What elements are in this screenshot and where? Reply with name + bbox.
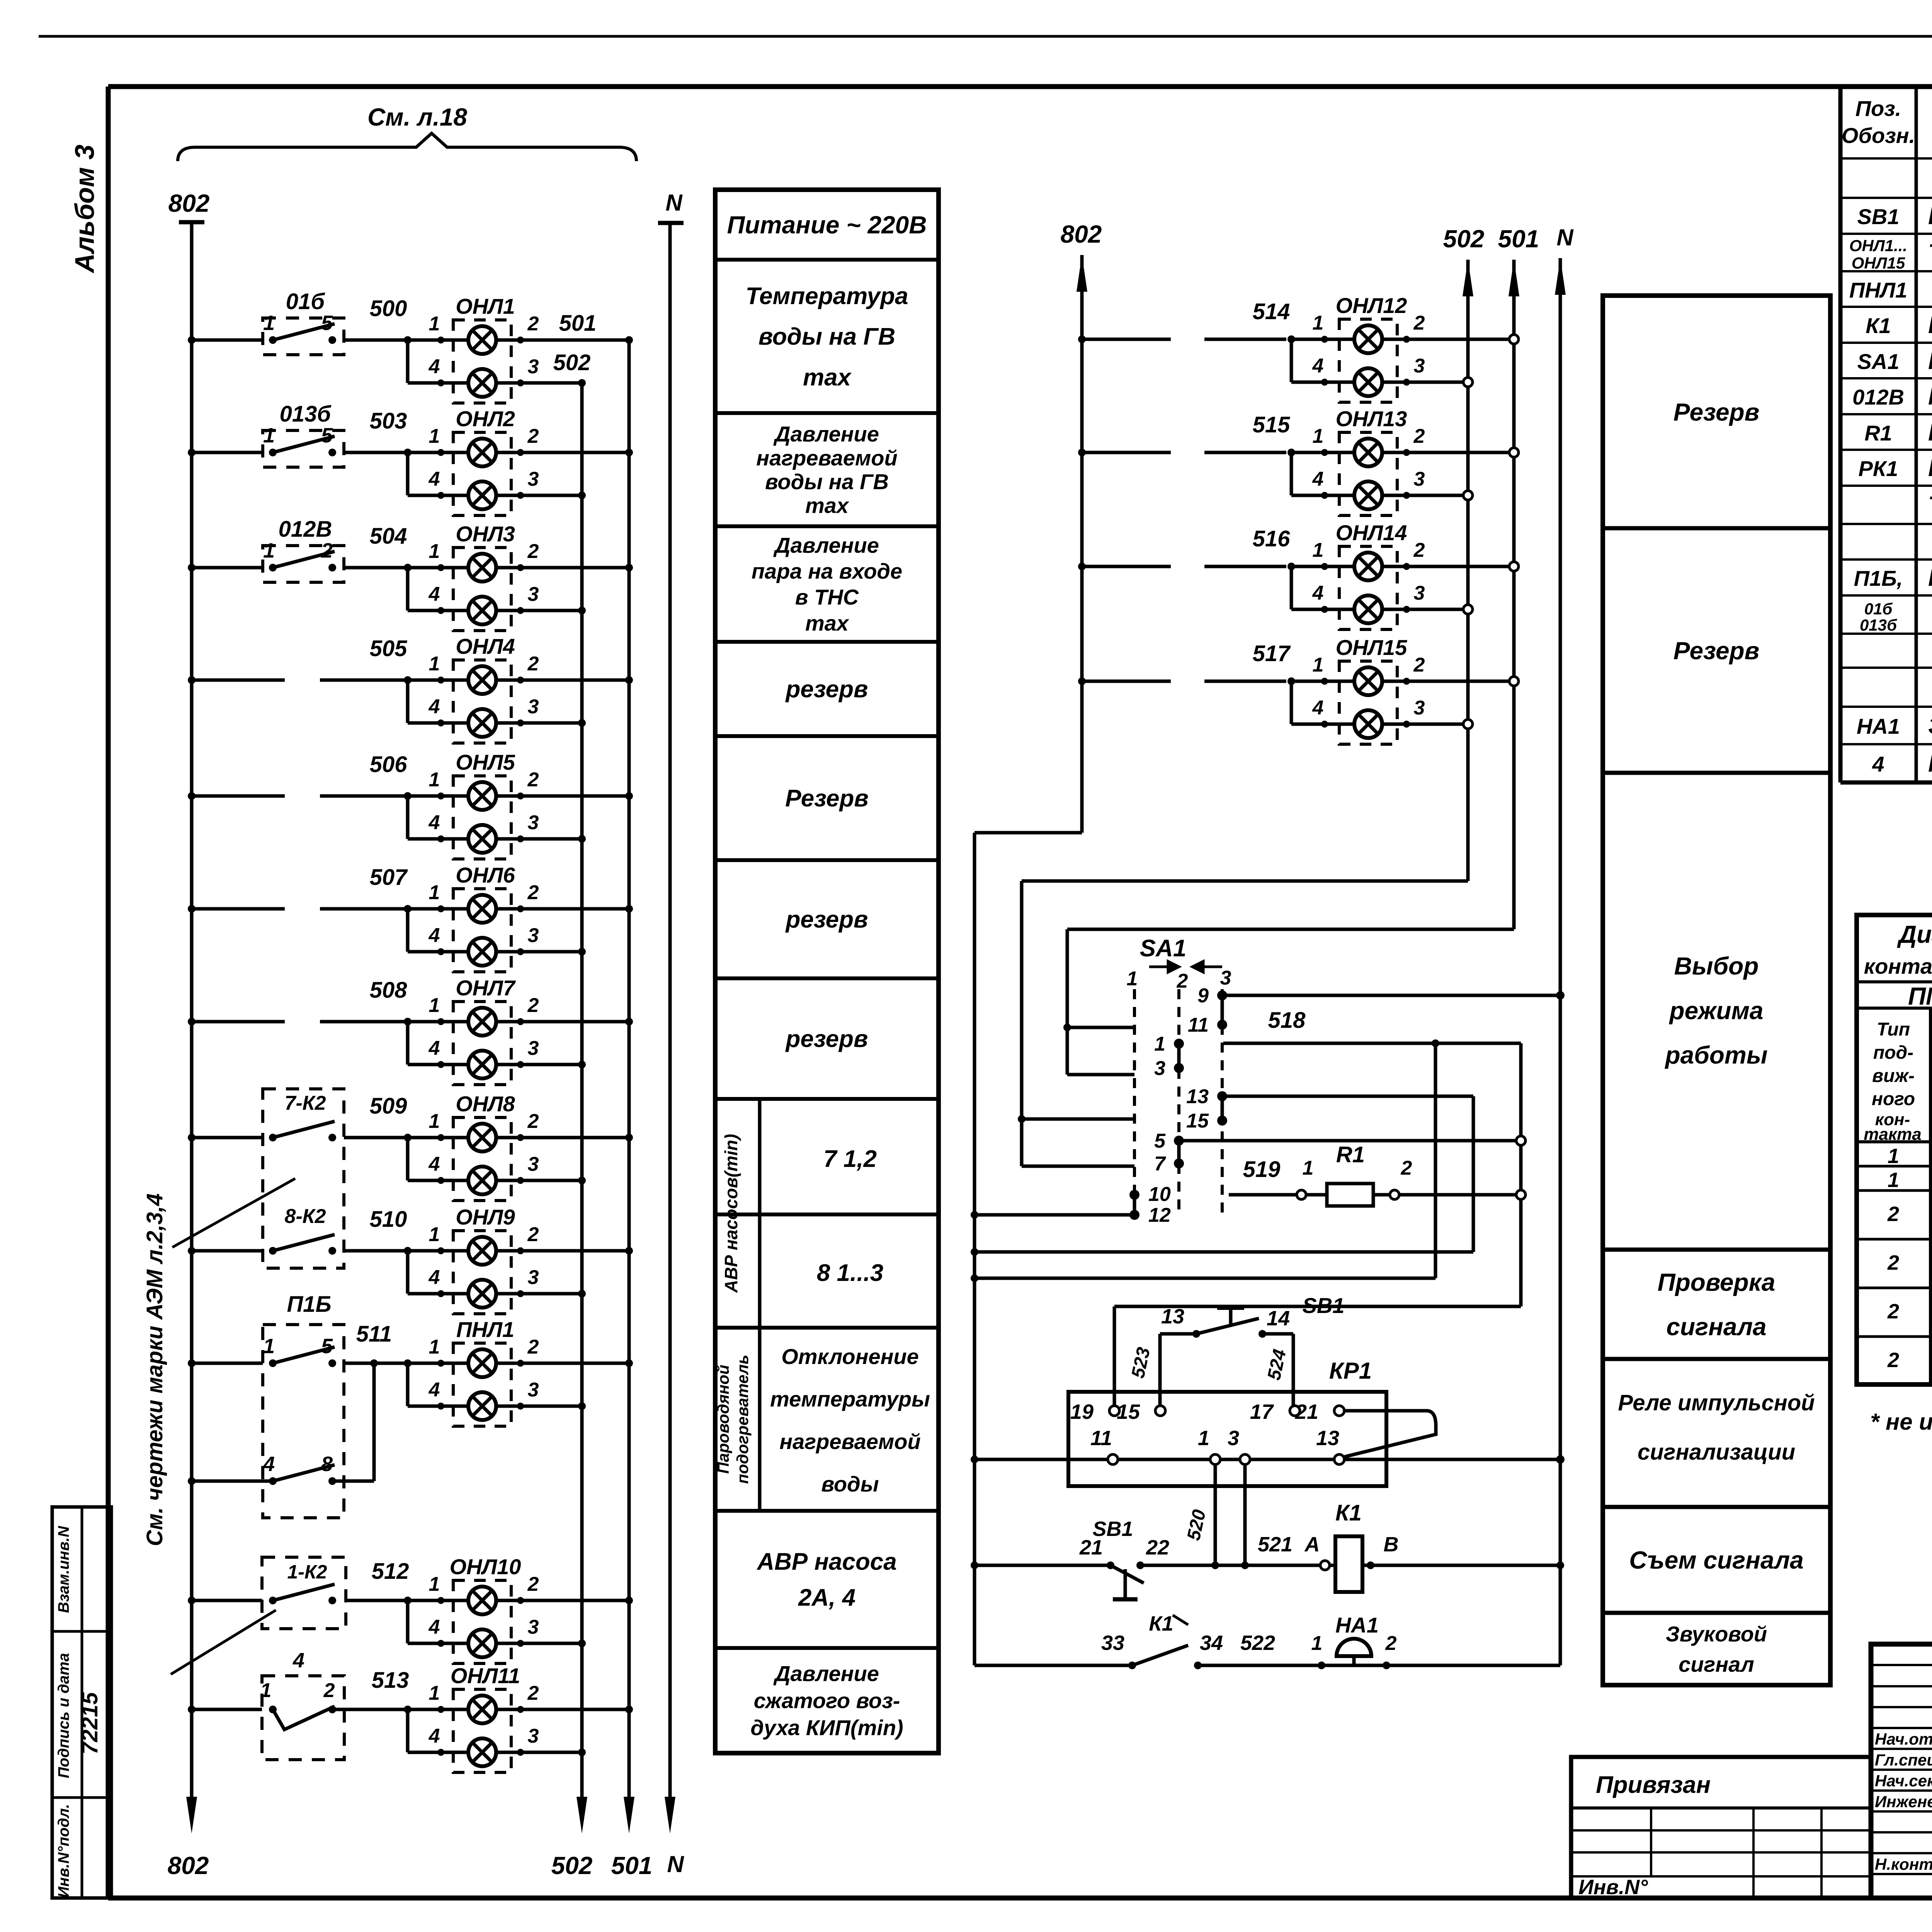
svg-text:Резистор ПЭ-25-2500 Ом +10%, 2: Резистор ПЭ-25-2500 Ом +10%, 25Вт: [1928, 419, 1932, 446]
svg-text:33: 33: [1101, 1631, 1124, 1655]
svg-text:сигнал: сигнал: [1679, 1652, 1754, 1676]
svg-text:3: 3: [528, 696, 539, 718]
svg-text:7-К2: 7-К2: [284, 1092, 326, 1114]
wire 501 riser to SA1: [1067, 928, 1514, 931]
svg-text:1: 1: [1127, 968, 1138, 990]
svg-text:4: 4: [1312, 697, 1324, 719]
svg-text:509: 509: [370, 1094, 407, 1119]
bell HA1: [1337, 1639, 1371, 1656]
SA1 dashed column 3: [1221, 989, 1224, 1215]
svg-text:Резерв: Резерв: [785, 785, 869, 812]
indicator lamp ОНЛ11: [453, 1689, 511, 1772]
svg-text:в ТНС: в ТНС: [795, 585, 859, 609]
svg-text:4: 4: [429, 583, 440, 605]
sub column АВР насосов(min): [758, 1099, 762, 1328]
svg-text:1: 1: [429, 1336, 440, 1358]
pointer line to 1-К2: [171, 1610, 276, 1674]
svg-text:2: 2: [1401, 1157, 1412, 1179]
svg-text:4: 4: [429, 1616, 440, 1638]
svg-text:АВР насоса: АВР насоса: [756, 1549, 896, 1575]
svg-text:1: 1: [1313, 654, 1324, 676]
svg-text:Пароводяной: Пароводяной: [714, 1365, 732, 1474]
svg-text:500: 500: [370, 296, 407, 321]
dashed box 012В: [263, 546, 344, 582]
svg-text:3: 3: [528, 468, 539, 490]
svg-text:5: 5: [321, 311, 333, 335]
dashed box 01б: [263, 318, 344, 355]
indicator lamp ОНЛ4: [453, 660, 511, 743]
svg-text:резерв: резерв: [785, 1026, 868, 1053]
svg-text:514: 514: [1253, 299, 1290, 324]
svg-text:3: 3: [528, 1379, 539, 1401]
svg-text:Реле тока двустабильное РТД12-: Реле тока двустабильное РТД12-02-34-40УХ…: [1928, 455, 1932, 481]
svg-text:01б: 01б: [286, 289, 326, 314]
svg-text:Прибор контроля ПКП. 1Э: Прибор контроля ПКП. 1Э: [1928, 565, 1932, 591]
svg-text:Звонок МЗ-1,220В,30ВЯ ТУ25-05-: Звонок МЗ-1,220В,30ВЯ ТУ25-05-1045-76: [1928, 713, 1932, 739]
wire 518: [1223, 1042, 1521, 1045]
box P1B: [263, 1325, 344, 1518]
wire KP1 pin19 riser: [1114, 1305, 1521, 1308]
svg-text:34: 34: [1200, 1631, 1223, 1655]
svg-text:1: 1: [1313, 539, 1324, 561]
svg-text:пара на входе: пара на входе: [752, 559, 902, 583]
svg-text:511: 511: [356, 1321, 392, 1347]
svg-text:2: 2: [527, 1223, 539, 1246]
svg-text:1: 1: [1888, 1145, 1899, 1168]
svg-text:духа КИП(min): духа КИП(min): [750, 1716, 903, 1740]
svg-text:505: 505: [370, 636, 408, 661]
svg-text:515: 515: [1253, 412, 1291, 437]
svg-text:SB1: SB1: [1092, 1517, 1133, 1541]
svg-text:013б: 013б: [1860, 616, 1897, 634]
svg-text:3: 3: [528, 355, 539, 378]
vertical junction wire right of SA1: [1519, 1043, 1523, 1306]
svg-text:ОНЛ8: ОНЛ8: [456, 1092, 515, 1116]
svg-text:В: В: [1384, 1533, 1399, 1556]
svg-text:Обозн.: Обозн.: [1842, 123, 1915, 148]
svg-text:15: 15: [1186, 1110, 1209, 1132]
frame top: [108, 84, 1932, 89]
svg-text:2: 2: [527, 1336, 539, 1358]
wire contact 8 up to 511: [332, 1480, 374, 1483]
svg-text:Инв.N°подл.: Инв.N°подл.: [55, 1804, 72, 1898]
svg-text:506: 506: [370, 752, 408, 777]
svg-text:Поз.: Поз.: [1855, 96, 1901, 121]
svg-text:2: 2: [323, 1679, 335, 1702]
svg-text:517: 517: [1253, 641, 1291, 666]
SA1 contacts 10-12: [1129, 1190, 1139, 1200]
svg-text:508: 508: [370, 978, 408, 1003]
svg-text:1: 1: [429, 881, 440, 904]
svg-text:ОНЛ1: ОНЛ1: [456, 294, 515, 318]
SA1 dashed column 2a: [1177, 989, 1180, 1043]
svg-text:2: 2: [527, 769, 539, 791]
svg-text:012В: 012В: [1852, 385, 1904, 409]
svg-text:3: 3: [528, 1153, 539, 1175]
svg-text:ОНЛ13: ОНЛ13: [1336, 406, 1407, 431]
svg-text:резерв: резерв: [785, 676, 868, 703]
wire SA1 12 feed: [971, 1211, 978, 1219]
svg-text:воды на ГВ: воды на ГВ: [765, 469, 889, 494]
node 502 left bus: [580, 383, 584, 1801]
svg-text:ОНЛ10: ОНЛ10: [450, 1554, 521, 1579]
svg-text:3: 3: [528, 924, 539, 947]
svg-text:510: 510: [370, 1207, 407, 1232]
svg-text:11: 11: [1188, 1014, 1209, 1036]
svg-text:Давление: Давление: [773, 1662, 879, 1686]
svg-text:Переключатель ПМОВ-112222/11-Д: Переключатель ПМОВ-112222/11-Д55: [1928, 348, 1932, 374]
svg-text:АВР насосов(min): АВР насосов(min): [721, 1134, 741, 1293]
svg-text:N: N: [665, 190, 683, 216]
svg-text:802: 802: [1061, 220, 1102, 248]
svg-text:Температура: Температура: [746, 283, 908, 310]
svg-text:ОНЛ15: ОНЛ15: [1336, 635, 1408, 660]
svg-text:13: 13: [1186, 1085, 1209, 1108]
svg-text:4: 4: [429, 1725, 440, 1747]
wire bus to П1Б contact 1-5: [192, 1362, 263, 1365]
wire 508: [188, 1018, 196, 1026]
svg-text:1: 1: [429, 1682, 440, 1704]
svg-text:4: 4: [1312, 468, 1324, 490]
pointer line to 7-К2 8-К2 box: [172, 1179, 295, 1247]
svg-text:4: 4: [429, 811, 440, 834]
svg-text:Кнопка КЕ11У3, исп.2 черный бе: Кнопка КЕ11У3, исп.2 черный без надписи: [1928, 203, 1932, 230]
svg-text:Реле импульсной: Реле импульсной: [1618, 1390, 1815, 1415]
svg-text:4: 4: [293, 1649, 304, 1672]
svg-text:4: 4: [429, 924, 440, 947]
svg-text:17: 17: [1250, 1400, 1274, 1423]
wire snyem signala rung: [971, 1561, 978, 1569]
svg-text:1: 1: [429, 1223, 440, 1246]
svg-text:2: 2: [1887, 1251, 1899, 1274]
svg-text:2: 2: [1887, 1202, 1899, 1226]
svg-text:Альбом 3: Альбом 3: [70, 145, 100, 274]
svg-text:2: 2: [527, 540, 539, 563]
svg-text:502: 502: [551, 1852, 593, 1879]
svg-text:2: 2: [1385, 1632, 1397, 1655]
svg-text:1: 1: [429, 994, 440, 1017]
KP1 bottom pin wire: [971, 1456, 978, 1463]
svg-text:виж-: виж-: [1872, 1066, 1915, 1086]
502 bus bottom arrow: [577, 1797, 587, 1833]
svg-text:3: 3: [1414, 697, 1425, 719]
contact 012В wire 504: [188, 564, 196, 571]
svg-text:513: 513: [372, 1668, 409, 1693]
left attribute boxes: [52, 1507, 111, 1898]
svg-text:1: 1: [263, 311, 275, 335]
svg-text:802: 802: [168, 1852, 209, 1879]
svg-text:ОНЛ3: ОНЛ3: [456, 522, 515, 546]
svg-text:5: 5: [321, 424, 333, 447]
svg-text:14: 14: [1267, 1307, 1290, 1330]
svg-text:R1: R1: [1336, 1142, 1365, 1167]
svg-text:2: 2: [527, 994, 539, 1017]
svg-text:воды: воды: [821, 1472, 879, 1496]
svg-text:3: 3: [528, 811, 539, 834]
svg-text:резерв: резерв: [785, 906, 868, 933]
svg-text:SB1: SB1: [1303, 1293, 1345, 1318]
wire 502 riser to SA1: [1022, 879, 1468, 883]
contact 8-К2 wire 510: [188, 1247, 196, 1255]
svg-text:П1Б,: П1Б,: [1854, 566, 1903, 590]
frame left: [106, 87, 111, 1898]
svg-text:КР1: КР1: [1329, 1358, 1372, 1384]
svg-text:1: 1: [263, 1335, 275, 1358]
svg-text:507: 507: [370, 865, 408, 890]
svg-text:НА1: НА1: [1335, 1613, 1379, 1637]
svg-text:НА1: НА1: [1857, 714, 1900, 738]
brace see sheet 18: [178, 133, 636, 161]
SA1 contacts 9-11: [1217, 990, 1227, 1000]
relay coil K1: [1320, 1561, 1330, 1570]
svg-text:Н.контр.: Н.контр.: [1875, 1855, 1932, 1873]
svg-text:4: 4: [1872, 752, 1884, 776]
wire 524: [1292, 1334, 1295, 1411]
svg-text:3: 3: [528, 1616, 539, 1638]
svg-text:ОНЛ2: ОНЛ2: [456, 406, 515, 431]
svg-text:4: 4: [429, 355, 440, 378]
svg-text:1: 1: [429, 1573, 440, 1595]
node N left bus: [658, 221, 684, 225]
svg-text:21: 21: [1295, 1400, 1318, 1423]
svg-text:013б: 013б: [280, 401, 332, 427]
svg-text:* не используется: * не используется: [1870, 1409, 1932, 1435]
svg-text:Проверка: Проверка: [1658, 1268, 1776, 1296]
svg-text:7 1,2: 7 1,2: [823, 1146, 877, 1172]
wire 516: [1078, 563, 1086, 570]
svg-text:mах: mах: [805, 493, 850, 518]
resistor R1 wire 519: [1229, 1193, 1301, 1197]
501 bus bottom arrow: [624, 1797, 634, 1833]
svg-text:2: 2: [527, 1573, 539, 1595]
parts list table: [1838, 87, 1843, 782]
svg-text:4: 4: [1312, 355, 1324, 377]
svg-text:Гл.спец.: Гл.спец.: [1875, 1751, 1932, 1769]
svg-text:сигнала: сигнала: [1666, 1313, 1766, 1341]
svg-text:12: 12: [1148, 1204, 1171, 1226]
wire 521 from KP1 pin3: [1243, 1464, 1247, 1565]
svg-text:1: 1: [263, 424, 275, 447]
svg-text:4: 4: [429, 1037, 440, 1060]
svg-text:2: 2: [527, 1110, 539, 1133]
svg-text:2: 2: [1413, 312, 1425, 334]
svg-text:72215: 72215: [77, 1692, 102, 1755]
802 bus bottom arrow: [186, 1797, 197, 1833]
indicator lamp ОНЛ6: [453, 889, 511, 972]
svg-text:2: 2: [321, 539, 333, 562]
svg-text:Съем сигнала: Съем сигнала: [1629, 1546, 1803, 1574]
svg-text:13: 13: [1161, 1305, 1184, 1328]
contact K1 33-34: [1128, 1662, 1136, 1669]
svg-text:13: 13: [1316, 1427, 1339, 1450]
svg-text:1: 1: [429, 313, 440, 335]
svg-text:ОНЛ11: ОНЛ11: [451, 1663, 520, 1688]
wire SA1 13 loop: [1222, 1095, 1473, 1098]
svg-text:504: 504: [370, 524, 407, 549]
svg-text:502: 502: [1443, 225, 1485, 253]
indicator lamp ПНЛ1: [453, 1343, 511, 1426]
wire 802 riser: [975, 831, 1082, 835]
svg-text:температуры: температуры: [770, 1387, 930, 1411]
svg-text:ОНЛ15: ОНЛ15: [1852, 254, 1905, 272]
svg-text:Привязан: Привязан: [1596, 1772, 1711, 1798]
svg-text:512: 512: [372, 1559, 409, 1584]
svg-text:Выбор: Выбор: [1674, 952, 1759, 980]
svg-text:518: 518: [1268, 1008, 1306, 1033]
svg-text:516: 516: [1253, 526, 1291, 551]
svg-text:501: 501: [559, 311, 597, 336]
svg-text:См. чертежи марки АЭМ л.2,3,: См. чертежи марки АЭМ л.2,3,4: [142, 1194, 167, 1546]
svg-text:нагреваемой: нагреваемой: [779, 1429, 920, 1454]
svg-text:7: 7: [1154, 1153, 1166, 1175]
indicator lamp ОНЛ3: [453, 548, 511, 631]
svg-text:К1: К1: [1149, 1612, 1173, 1635]
svg-text:Реле ПЭ37-22У3, 220В , 50Гц: Реле ПЭ37-22У3, 220В , 50Гц: [1928, 312, 1932, 338]
svg-text:4: 4: [429, 1153, 440, 1175]
svg-text:ОНЛ5: ОНЛ5: [456, 750, 515, 774]
svg-text:2: 2: [1887, 1300, 1899, 1323]
wire 505: [188, 676, 196, 684]
svg-text:Манометр ЭКМ1У-1: Манометр ЭКМ1У-1: [1928, 383, 1932, 410]
svg-text:Диаграмма замыкания: Диаграмма замыкания: [1897, 920, 1932, 948]
svg-text:9: 9: [1197, 985, 1209, 1007]
svg-text:1: 1: [429, 653, 440, 675]
svg-text:ОНЛ9: ОНЛ9: [456, 1205, 515, 1229]
wire 507: [188, 905, 196, 913]
wire 523: [1158, 1334, 1162, 1411]
svg-text:502: 502: [553, 350, 591, 375]
svg-text:Давление: Давление: [773, 422, 879, 446]
svg-text:Инв.N°: Инв.N°: [1578, 1876, 1648, 1899]
svg-text:ОНЛ14: ОНЛ14: [1336, 520, 1407, 545]
svg-text:11: 11: [1090, 1427, 1112, 1450]
indicator lamp ОНЛ13: [1339, 432, 1397, 515]
svg-text:ТУ16 -523. 601-81Е: ТУ16 -523. 601-81Е: [1928, 492, 1932, 519]
box 4: [262, 1676, 344, 1760]
svg-text:1: 1: [263, 539, 275, 562]
pushbutton SB1 lower: [1107, 1561, 1114, 1569]
N bus bottom arrow: [665, 1797, 675, 1833]
pushbutton SB1 upper: [1160, 1332, 1196, 1336]
svg-text:SА1: SА1: [1140, 935, 1187, 962]
KP1 pin 21-13 jumper: [1344, 1411, 1436, 1457]
relay KP1: [1068, 1392, 1386, 1486]
svg-text:Отклонение: Отклонение: [781, 1344, 919, 1369]
svg-text:подогреватель: подогреватель: [733, 1355, 752, 1484]
svg-text:802: 802: [168, 189, 210, 217]
svg-text:012В: 012В: [279, 517, 332, 542]
svg-text:1: 1: [1313, 425, 1324, 447]
svg-text:сжатого воз-: сжатого воз-: [754, 1689, 900, 1713]
indicator lamp ОНЛ5: [453, 776, 511, 859]
svg-text:N: N: [1556, 224, 1574, 250]
wire 515: [1078, 449, 1086, 456]
svg-text:3: 3: [528, 1037, 539, 1060]
svg-text:2: 2: [1413, 425, 1425, 447]
svg-text:сигнализации: сигнализации: [1638, 1440, 1795, 1465]
node 802 left bus: [179, 220, 204, 224]
svg-text:503: 503: [370, 408, 407, 434]
svg-text:1: 1: [1154, 1033, 1165, 1055]
svg-text:1-К2: 1-К2: [287, 1561, 327, 1583]
svg-text:mах: mах: [803, 364, 852, 391]
svg-text:mах: mах: [805, 611, 850, 635]
svg-text:4: 4: [263, 1452, 275, 1476]
svg-text:Инженер: Инженер: [1875, 1793, 1932, 1811]
svg-text:1: 1: [429, 769, 440, 791]
SA1 contact closure diagram table: [1857, 915, 1932, 1384]
SA1 contacts 13-15: [1217, 1091, 1227, 1101]
svg-text:2: 2: [527, 881, 539, 904]
box 1-K2: [262, 1557, 346, 1629]
svg-text:1: 1: [429, 1110, 440, 1133]
svg-text:N: N: [667, 1851, 684, 1877]
svg-text:1: 1: [429, 540, 440, 563]
indicator lamp ОНЛ1: [453, 320, 511, 403]
svg-text:ОНЛ1...: ОНЛ1...: [1849, 236, 1907, 255]
svg-text:ПНЛ1: ПНЛ1: [456, 1317, 514, 1342]
wire SA1 pin3 to N bus: [1222, 994, 1560, 997]
svg-text:П1Б: П1Б: [287, 1292, 331, 1317]
svg-text:4: 4: [429, 1266, 440, 1289]
svg-text:Манометр ЭКМ1У-1: Манометр ЭКМ1У-1: [1928, 750, 1932, 777]
indicator lamp ОНЛ9: [453, 1231, 511, 1314]
svg-text:4: 4: [1312, 582, 1324, 604]
svg-text:3: 3: [528, 583, 539, 605]
contact 013б wire 503: [188, 449, 196, 456]
wire 506: [188, 792, 196, 800]
svg-text:521: 521: [1258, 1533, 1293, 1556]
svg-text:501: 501: [611, 1852, 653, 1879]
svg-text:2: 2: [527, 653, 539, 675]
svg-text:4: 4: [429, 468, 440, 490]
svg-text:10: 10: [1148, 1183, 1171, 1206]
svg-text:SB1: SB1: [1857, 204, 1900, 229]
svg-text:режима: режима: [1669, 997, 1764, 1024]
privyazan box: [1571, 1757, 1871, 1898]
svg-text:Резерв: Резерв: [1673, 398, 1760, 426]
svg-text:19: 19: [1070, 1400, 1094, 1423]
svg-text:8-К2: 8-К2: [284, 1205, 326, 1228]
svg-text:519: 519: [1243, 1157, 1281, 1182]
sub column Пароводяной подогреватель: [758, 1328, 762, 1511]
SA1 contacts 5-7: [1174, 1136, 1184, 1146]
svg-text:контактов переключателя „SА: контактов переключателя „SА: [1864, 954, 1932, 978]
indicator lamp ОНЛ14: [1339, 546, 1397, 629]
svg-text:Давление: Давление: [773, 533, 879, 557]
signal description column: [715, 190, 939, 1753]
indicator lamp ОНЛ7: [453, 1002, 511, 1085]
svg-text:8 1...3: 8 1...3: [817, 1260, 883, 1286]
svg-text:2: 2: [1413, 654, 1425, 676]
svg-text:2: 2: [527, 1682, 539, 1704]
svg-text:К1: К1: [1335, 1500, 1362, 1526]
outer border top: [39, 35, 1932, 38]
svg-text:Нач.отд.: Нач.отд.: [1875, 1730, 1932, 1748]
svg-text:1: 1: [1311, 1632, 1323, 1655]
svg-text:15: 15: [1117, 1400, 1140, 1423]
svg-text:ного: ного: [1872, 1089, 1915, 1109]
svg-text:Звуковой: Звуковой: [1666, 1622, 1767, 1646]
svg-text:нагреваемой: нагреваемой: [756, 446, 897, 470]
svg-text:1: 1: [1303, 1157, 1314, 1179]
svg-text:Взам.инв.N: Взам.инв.N: [55, 1526, 72, 1613]
title block: [1871, 1644, 1932, 1898]
svg-text:1: 1: [429, 425, 440, 447]
svg-text:3: 3: [528, 1266, 539, 1289]
svg-text:3: 3: [1228, 1427, 1239, 1450]
svg-text:2: 2: [1177, 970, 1188, 992]
